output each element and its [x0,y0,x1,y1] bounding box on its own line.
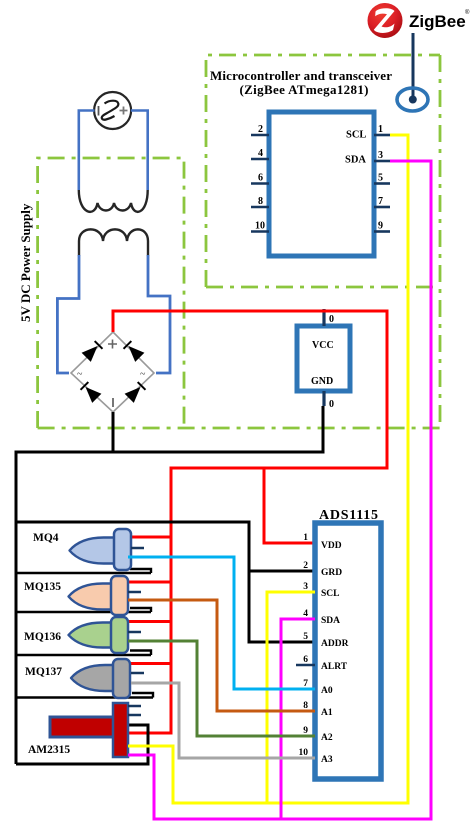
wire: cyan A0 [128,557,315,689]
plus mark [108,340,117,349]
microcontroller U1 (ATmega1281) [269,112,374,256]
svg-text:VDD: VDD [321,541,342,551]
U1 right pins 1,3,5,7,9 [374,135,390,232]
svg-text:0: 0 [329,399,334,410]
wire: logo to antenna (navy) [412,33,415,99]
U2 bottom stub pin 0 [322,391,325,406]
diode top-right [123,340,145,362]
wire: gray A3 [131,683,315,758]
sensor socket shelves [130,569,153,698]
svg-text:3: 3 [378,150,383,161]
sensor MQ136 [24,617,141,653]
svg-text:MQ137: MQ137 [25,666,62,678]
svg-text:SDA: SDA [321,616,340,626]
wire: yellow SCL net [128,135,408,803]
svg-text:2: 2 [258,124,263,135]
antenna symbol [397,88,428,111]
sensor MQ137 [25,659,144,698]
svg-text:MQ135: MQ135 [24,581,61,593]
power supply enclosure (green dash-dot box) [38,55,440,428]
svg-text:ALRT: ALRT [321,662,348,672]
svg-text:8: 8 [258,196,263,207]
wire: dark green A2 [128,641,315,736]
svg-text:1: 1 [303,533,308,543]
svg-text:5V DC Power Supply: 5V DC Power Supply [18,203,33,322]
bridge rectifier D1-D4 (diamond) [71,332,154,412]
diode bottom-left [80,381,102,403]
svg-text:A1: A1 [321,708,333,718]
wire: secondary to bridge (blue) [57,255,170,373]
svg-text:5: 5 [303,632,308,642]
U3 pin numbers [299,533,309,758]
U1 left pins 2,4,6,8,10 [251,135,269,232]
svg-text:6: 6 [258,173,263,184]
sensor MQ4 [33,529,144,570]
U3 pin labels [321,541,349,765]
svg-text:ADDR: ADDR [321,639,349,649]
svg-text:Microcontroller and transceive: Microcontroller and transceiver [210,68,392,83]
svg-text:MQ136: MQ136 [24,631,61,643]
svg-text:4: 4 [258,148,263,159]
svg-text:0: 0 [329,314,334,325]
svg-text:7: 7 [378,196,383,207]
svg-text:®: ® [465,9,470,16]
wire: red net (bridge + to VCC rail, ADS VDD, sensor supply bus) [113,311,387,733]
wire: orange A1 [128,600,315,711]
diode bottom-right [125,381,147,403]
svg-text:VCC: VCC [312,340,334,351]
AC source V1 [94,92,131,129]
svg-text:~: ~ [77,369,83,380]
svg-text:ZigBee: ZigBee [409,12,466,31]
svg-text:2: 2 [303,561,308,571]
svg-text:A0: A0 [321,686,333,696]
svg-text:9: 9 [378,221,383,232]
diode top-left [82,340,104,362]
svg-text:~: ~ [140,369,146,380]
svg-text:6: 6 [303,655,308,665]
sensor AM2315 [28,703,141,757]
svg-text:MQ4: MQ4 [33,532,59,544]
transformer T1 secondary winding [79,229,148,256]
svg-text:SCL: SCL [346,130,366,141]
svg-text:SCL: SCL [321,589,339,599]
transformer T1 primary winding [79,190,148,212]
minus mark [112,398,114,407]
VCC/GND block U2 [297,326,350,391]
svg-text:A2: A2 [321,733,333,743]
svg-text:GRD: GRD [321,568,342,578]
sensor MQ135 [24,576,141,615]
svg-text:1: 1 [378,124,383,135]
wire: AC source to transformer primary (blue) [79,111,148,191]
svg-text:SDA: SDA [345,155,366,166]
ZigBee logo [368,3,471,38]
sensor row dividers (black) [16,573,153,698]
svg-text:GND: GND [311,376,333,387]
svg-text:A3: A3 [321,755,333,765]
svg-text:(ZigBee ATmega1281): (ZigBee ATmega1281) [240,82,369,97]
svg-text:AM2315: AM2315 [28,744,70,756]
svg-text:10: 10 [255,221,265,232]
wire: black GND net [16,406,323,764]
svg-text:5: 5 [378,173,383,184]
U3 pin stubs [296,664,315,666]
wire: magenta SDA net [128,161,431,819]
U2 top stub pin 0 [322,309,325,326]
